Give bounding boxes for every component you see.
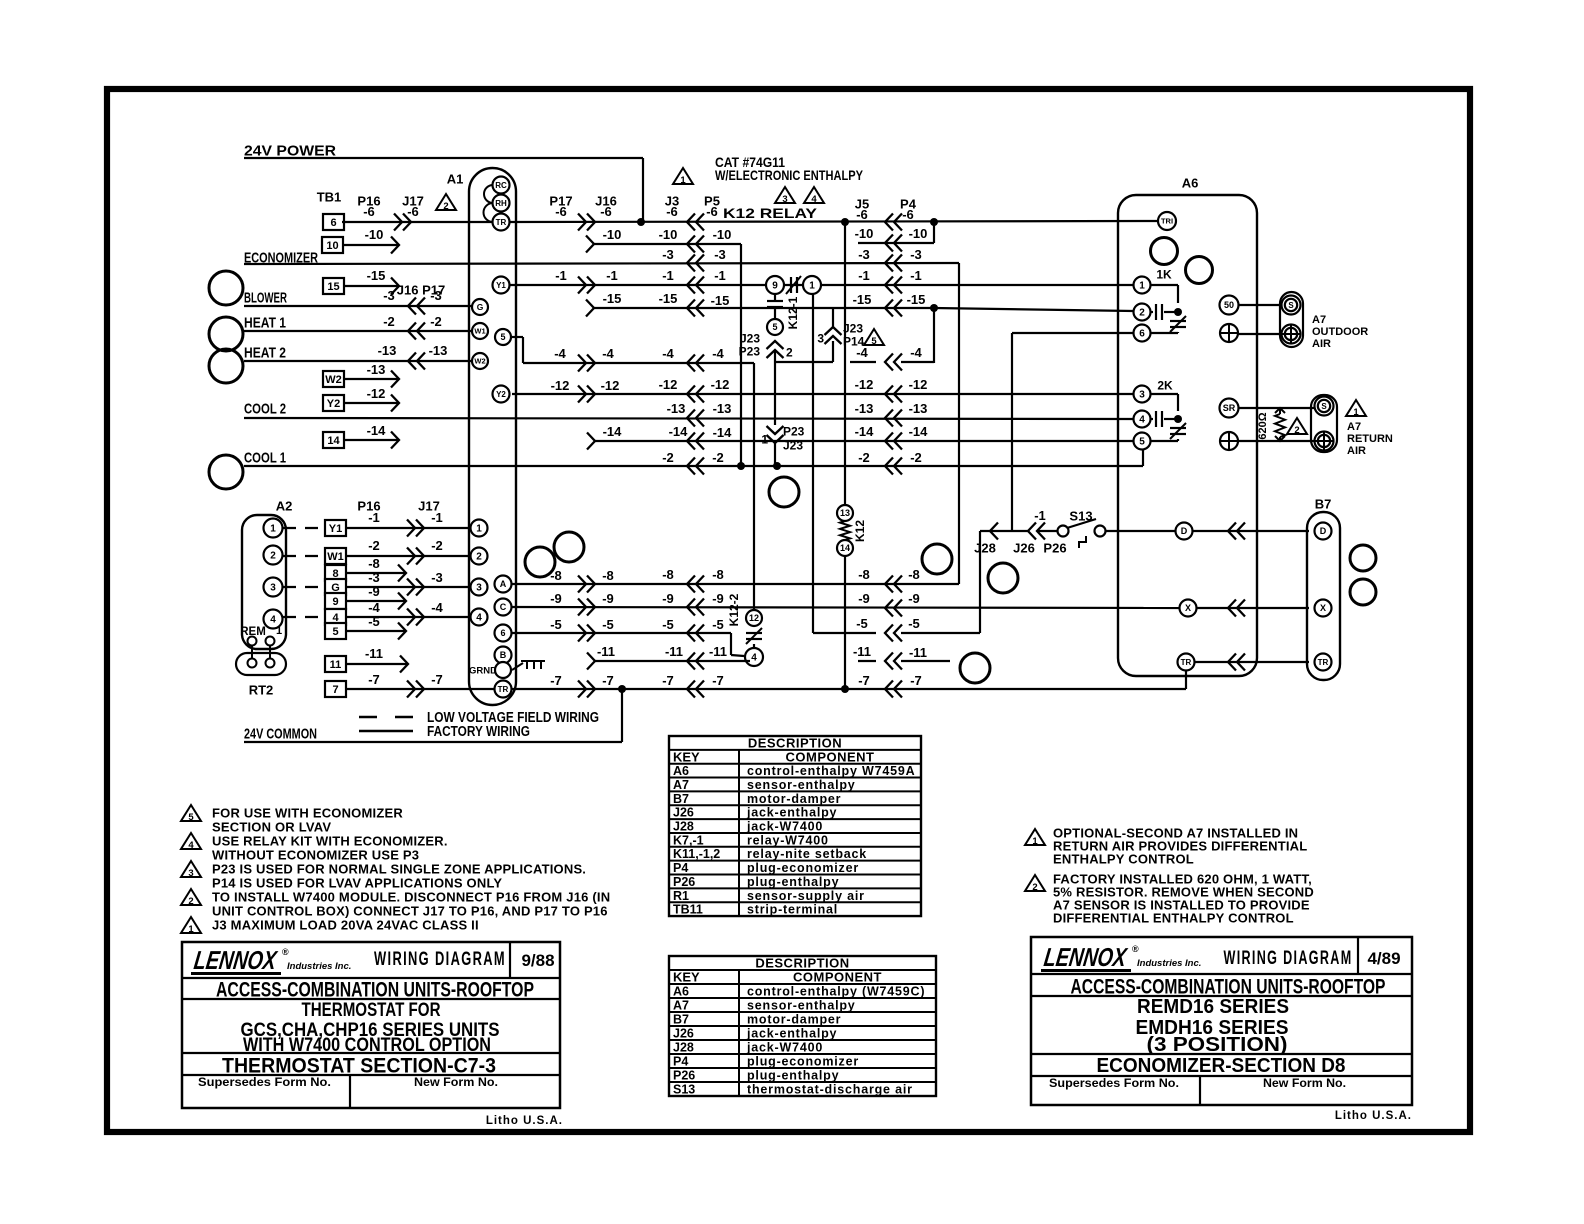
svg-text:-7: -7 (712, 673, 724, 688)
svg-text:REMD16 SERIES: REMD16 SERIES (1137, 996, 1289, 1018)
svg-text:-2: -2 (368, 538, 380, 553)
svg-text:®: ® (1132, 944, 1139, 954)
svg-text:K12-1: K12-1 (786, 296, 800, 329)
svg-text:A2: A2 (276, 499, 293, 514)
svg-text:COMPONENT: COMPONENT (786, 749, 875, 764)
svg-text:plug-economizer: plug-economizer (747, 1055, 859, 1069)
svg-text:6: 6 (500, 628, 505, 638)
svg-text:2: 2 (1294, 425, 1299, 436)
svg-text:-8: -8 (908, 567, 920, 582)
svg-text:-15: -15 (907, 292, 926, 307)
svg-text:TRI: TRI (1161, 217, 1173, 226)
svg-text:RH: RH (495, 199, 507, 208)
svg-text:ECONOMIZER-SECTION D8: ECONOMIZER-SECTION D8 (1097, 1055, 1346, 1077)
svg-text:S: S (1288, 301, 1294, 310)
svg-text:-1: -1 (555, 268, 567, 283)
svg-text:strip-terminal: strip-terminal (747, 903, 838, 917)
svg-text:1: 1 (188, 924, 194, 935)
svg-text:P26: P26 (673, 875, 695, 889)
svg-text:2: 2 (1032, 882, 1037, 893)
svg-text:1: 1 (1139, 281, 1145, 292)
svg-text:-9: -9 (368, 584, 380, 599)
svg-text:10: 10 (326, 240, 338, 252)
svg-text:-11: -11 (665, 644, 683, 659)
svg-text:-1: -1 (606, 268, 618, 283)
svg-text:-1: -1 (1034, 508, 1046, 523)
svg-text:D: D (1320, 526, 1327, 536)
svg-text:-4: -4 (856, 345, 868, 360)
svg-text:A7: A7 (1312, 314, 1326, 326)
svg-text:-1: -1 (858, 268, 870, 283)
svg-text:-12: -12 (367, 386, 386, 401)
svg-text:FOR USE WITH ECONOMIZER: FOR USE WITH ECONOMIZER (212, 806, 403, 821)
svg-text:-8: -8 (602, 568, 614, 583)
svg-text:4: 4 (1139, 415, 1145, 426)
svg-text:A7: A7 (1347, 421, 1361, 433)
svg-text:A6: A6 (1182, 176, 1199, 191)
svg-text:5: 5 (188, 812, 194, 823)
svg-text:5: 5 (500, 332, 505, 342)
svg-text:-1: -1 (714, 268, 726, 283)
svg-text:4: 4 (811, 194, 817, 205)
svg-text:-9: -9 (908, 591, 920, 606)
svg-text:J28: J28 (673, 820, 694, 834)
svg-text:P23: P23 (783, 424, 805, 438)
svg-text:-4: -4 (602, 346, 614, 361)
svg-text:-2: -2 (383, 314, 395, 329)
svg-text:-10: -10 (909, 226, 928, 241)
svg-text:K12 RELAY: K12 RELAY (723, 205, 818, 221)
svg-text:-12: -12 (601, 378, 620, 393)
svg-text:-6: -6 (902, 207, 914, 222)
svg-text:-14: -14 (855, 424, 875, 439)
svg-text:14: 14 (327, 435, 340, 447)
svg-text:-7: -7 (858, 673, 870, 688)
svg-text:-2: -2 (431, 538, 443, 553)
svg-text:1: 1 (761, 432, 768, 446)
svg-text:-12: -12 (909, 377, 928, 392)
svg-text:RT2: RT2 (249, 683, 274, 698)
svg-text:W2: W2 (325, 374, 342, 386)
svg-text:-2: -2 (712, 450, 724, 465)
svg-text:1: 1 (809, 281, 815, 292)
svg-text:4: 4 (751, 653, 757, 664)
svg-text:620Ω: 620Ω (1257, 412, 1269, 439)
svg-text:-3: -3 (430, 288, 442, 303)
svg-text:jack-W7400: jack-W7400 (746, 1041, 823, 1055)
svg-text:J28: J28 (673, 1041, 694, 1055)
svg-text:-4: -4 (712, 346, 724, 361)
svg-text:-5: -5 (602, 617, 614, 632)
svg-text:plug-enthalpy: plug-enthalpy (747, 875, 839, 889)
svg-text:-9: -9 (662, 591, 674, 606)
svg-text:KEY: KEY (673, 970, 700, 985)
svg-text:6: 6 (1139, 329, 1145, 340)
svg-text:3: 3 (476, 583, 482, 594)
svg-text:-5: -5 (662, 617, 674, 632)
svg-text:-6: -6 (706, 204, 718, 219)
svg-text:4: 4 (188, 840, 194, 851)
svg-text:AIR: AIR (1347, 445, 1366, 457)
svg-text:-7: -7 (431, 672, 443, 687)
svg-text:-4: -4 (368, 600, 380, 615)
svg-text:15: 15 (327, 281, 339, 293)
svg-text:J26: J26 (673, 1027, 694, 1041)
svg-text:J23: J23 (740, 331, 760, 345)
svg-text:3: 3 (817, 331, 824, 345)
svg-text:-11: -11 (909, 645, 927, 660)
svg-text:HEAT 2: HEAT 2 (244, 344, 286, 361)
svg-text:-5: -5 (856, 616, 868, 631)
svg-text:-3: -3 (431, 570, 443, 585)
svg-text:WITHOUT ECONOMIZER USE P3: WITHOUT ECONOMIZER USE P3 (212, 848, 419, 863)
svg-text:-5: -5 (712, 617, 724, 632)
svg-text:SECTION OR LVAV: SECTION OR LVAV (212, 820, 331, 835)
svg-text:C: C (500, 602, 507, 612)
svg-text:relay-W7400: relay-W7400 (747, 833, 829, 847)
svg-text:13: 13 (840, 508, 850, 518)
svg-text:K11,-1,2: K11,-1,2 (673, 847, 720, 861)
svg-text:TR: TR (1181, 658, 1192, 667)
svg-text:motor-damper: motor-damper (747, 792, 841, 806)
svg-text:RETURN: RETURN (1347, 433, 1393, 445)
svg-text:Litho U.S.A.: Litho U.S.A. (486, 1115, 563, 1127)
svg-text:-1: -1 (368, 510, 380, 525)
svg-text:A1: A1 (447, 172, 464, 187)
svg-text:-15: -15 (853, 292, 872, 307)
svg-text:J26: J26 (1013, 541, 1035, 556)
svg-text:OUTDOOR: OUTDOOR (1312, 326, 1368, 338)
svg-text:-12: -12 (711, 377, 730, 392)
svg-text:LENNOX: LENNOX (192, 945, 279, 975)
svg-text:A6: A6 (673, 764, 689, 778)
svg-text:1: 1 (270, 524, 276, 535)
svg-text:24V COMMON: 24V COMMON (244, 725, 317, 742)
svg-text:Y2: Y2 (496, 390, 506, 399)
svg-text:2: 2 (786, 345, 793, 359)
svg-text:FACTORY WIRING: FACTORY WIRING (427, 724, 530, 740)
svg-text:A7: A7 (673, 778, 689, 792)
svg-text:-4: -4 (910, 345, 922, 360)
svg-text:TO INSTALL W7400 MODULE. DISCO: TO INSTALL W7400 MODULE. DISCONNECT P16 … (212, 890, 610, 905)
svg-text:Litho U.S.A.: Litho U.S.A. (1335, 1110, 1412, 1122)
svg-text:J26: J26 (673, 806, 694, 820)
svg-text:control-enthalpy (W7459C): control-enthalpy (W7459C) (747, 985, 925, 999)
svg-text:-3: -3 (714, 247, 726, 262)
svg-text:-10: -10 (855, 226, 874, 241)
svg-text:-8: -8 (858, 567, 870, 582)
svg-text:B7: B7 (673, 792, 689, 806)
svg-text:7: 7 (332, 684, 338, 696)
svg-text:B7: B7 (1315, 497, 1332, 512)
svg-text:X: X (1185, 603, 1191, 613)
svg-text:5: 5 (332, 626, 338, 638)
svg-text:W2: W2 (474, 357, 485, 366)
svg-text:GRND: GRND (469, 665, 497, 676)
svg-text:(3 POSITION): (3 POSITION) (1147, 1034, 1288, 1056)
svg-text:plug-enthalpy: plug-enthalpy (747, 1069, 839, 1083)
svg-text:W/ELECTRONIC ENTHALPY: W/ELECTRONIC ENTHALPY (715, 167, 864, 183)
svg-text:Supersedes Form No.: Supersedes Form No. (198, 1077, 331, 1089)
svg-text:-9: -9 (858, 591, 870, 606)
svg-text:5: 5 (871, 336, 877, 347)
svg-text:2: 2 (270, 551, 276, 562)
svg-text:P4: P4 (673, 1055, 688, 1069)
svg-text:WIRING DIAGRAM: WIRING DIAGRAM (1224, 948, 1353, 969)
svg-text:R1: R1 (673, 889, 689, 903)
svg-text:KEY: KEY (673, 749, 700, 764)
svg-text:-2: -2 (430, 314, 442, 329)
svg-text:plug-economizer: plug-economizer (747, 861, 859, 875)
svg-text:-6: -6 (407, 204, 419, 219)
svg-text:1: 1 (1353, 407, 1359, 418)
svg-text:2: 2 (443, 201, 448, 212)
svg-text:-3: -3 (383, 288, 395, 303)
svg-text:WITH W7400 CONTROL OPTION: WITH W7400 CONTROL OPTION (243, 1035, 491, 1056)
svg-text:2: 2 (188, 896, 193, 907)
svg-text:-9: -9 (602, 591, 614, 606)
svg-text:3: 3 (188, 868, 193, 879)
svg-text:New Form No.: New Form No. (414, 1077, 498, 1089)
svg-text:-13: -13 (909, 401, 928, 416)
svg-text:-14: -14 (603, 424, 623, 439)
svg-text:2K: 2K (1157, 378, 1173, 392)
svg-text:-13: -13 (667, 401, 686, 416)
svg-text:W1: W1 (327, 551, 344, 563)
svg-text:ENTHALPY CONTROL: ENTHALPY CONTROL (1053, 852, 1194, 867)
svg-text:-5: -5 (368, 614, 380, 629)
svg-text:-5: -5 (908, 616, 920, 631)
svg-text:1K: 1K (1156, 267, 1172, 281)
svg-text:1: 1 (476, 524, 482, 535)
svg-text:BLOWER: BLOWER (244, 289, 287, 306)
svg-text:3: 3 (270, 583, 276, 594)
svg-text:-2: -2 (858, 450, 870, 465)
svg-text:ACCESS-COMBINATION UNITS-ROOFT: ACCESS-COMBINATION UNITS-ROOFTOP (216, 979, 534, 1002)
svg-text:B7: B7 (673, 1013, 689, 1027)
svg-text:A7: A7 (673, 999, 689, 1013)
svg-text:SR: SR (1223, 403, 1236, 413)
svg-text:S: S (1321, 402, 1327, 411)
svg-text:4: 4 (270, 615, 276, 626)
svg-text:-13: -13 (378, 343, 397, 358)
svg-text:-11: -11 (853, 644, 871, 659)
svg-text:-7: -7 (662, 673, 674, 688)
svg-text:-1: -1 (662, 268, 674, 283)
svg-text:LENNOX: LENNOX (1042, 942, 1129, 972)
svg-text:HEAT 1: HEAT 1 (244, 314, 286, 331)
svg-text:Y2: Y2 (327, 398, 340, 410)
svg-text:sensor-enthalpy: sensor-enthalpy (747, 999, 856, 1013)
svg-text:-10: -10 (713, 227, 732, 242)
svg-text:6: 6 (330, 217, 336, 229)
svg-text:-14: -14 (909, 424, 929, 439)
svg-text:-13: -13 (855, 401, 874, 416)
svg-text:P4: P4 (673, 861, 688, 875)
svg-text:3: 3 (782, 194, 787, 205)
svg-text:-15: -15 (603, 291, 622, 306)
svg-text:P26: P26 (673, 1069, 695, 1083)
svg-text:11: 11 (330, 659, 342, 671)
svg-text:DESCRIPTION: DESCRIPTION (755, 956, 849, 971)
svg-text:jack-enthalpy: jack-enthalpy (746, 1027, 837, 1041)
svg-text:®: ® (282, 947, 289, 957)
svg-text:A: A (500, 579, 507, 589)
svg-text:-10: -10 (659, 227, 678, 242)
svg-text:S13: S13 (673, 1083, 695, 1097)
svg-text:-15: -15 (711, 293, 730, 308)
svg-text:Supersedes Form No.: Supersedes Form No. (1049, 1078, 1179, 1090)
svg-text:4: 4 (476, 613, 482, 624)
svg-text:G: G (477, 302, 484, 312)
svg-text:control-enthalpy W7459A: control-enthalpy W7459A (747, 764, 915, 778)
svg-text:-3: -3 (858, 247, 870, 262)
svg-text:-6: -6 (555, 204, 567, 219)
svg-text:-13: -13 (429, 343, 448, 358)
svg-text:9: 9 (772, 281, 778, 292)
svg-text:-6: -6 (856, 207, 868, 222)
svg-text:-7: -7 (910, 673, 922, 688)
svg-text:thermostat-discharge air: thermostat-discharge air (747, 1083, 913, 1097)
svg-text:THERMOSTAT FOR: THERMOSTAT FOR (302, 1000, 441, 1021)
svg-text:COOL 1: COOL 1 (244, 449, 286, 466)
svg-text:S13: S13 (1069, 509, 1092, 524)
svg-text:K12-2: K12-2 (727, 593, 741, 626)
svg-text:-8: -8 (662, 567, 674, 582)
svg-text:New Form No.: New Form No. (1263, 1078, 1346, 1090)
svg-text:K7,-1: K7,-1 (673, 833, 704, 847)
svg-text:USE RELAY KIT WITH ECONOMIZER.: USE RELAY KIT WITH ECONOMIZER. (212, 834, 448, 849)
svg-text:12: 12 (749, 613, 759, 623)
svg-text:-3: -3 (368, 570, 380, 585)
svg-text:9/88: 9/88 (521, 951, 554, 970)
svg-text:-14: -14 (669, 424, 689, 439)
svg-text:A6: A6 (673, 985, 689, 999)
svg-text:-7: -7 (550, 673, 562, 688)
svg-text:14: 14 (840, 543, 850, 553)
svg-text:-3: -3 (910, 247, 922, 262)
svg-text:Industries Inc.: Industries Inc. (1137, 958, 1201, 969)
svg-text:motor-damper: motor-damper (747, 1013, 841, 1027)
svg-text:P26: P26 (1043, 541, 1066, 556)
svg-text:P23: P23 (739, 344, 761, 358)
svg-text:-9: -9 (550, 591, 562, 606)
svg-text:4/89: 4/89 (1367, 949, 1400, 968)
svg-text:-2: -2 (662, 450, 674, 465)
svg-text:-10: -10 (603, 227, 622, 242)
svg-text:jack-enthalpy: jack-enthalpy (746, 806, 837, 820)
svg-text:UNIT CONTROL BOX) CONNECT J17: UNIT CONTROL BOX) CONNECT J17 TO P16, AN… (212, 904, 608, 919)
svg-text:5: 5 (772, 322, 777, 332)
svg-text:TR: TR (496, 218, 507, 227)
svg-text:-14: -14 (367, 423, 387, 438)
svg-text:-8: -8 (368, 556, 380, 571)
svg-text:1: 1 (276, 625, 282, 637)
svg-text:9: 9 (332, 596, 338, 608)
svg-text:B: B (500, 650, 507, 660)
svg-text:1: 1 (1032, 836, 1038, 847)
svg-text:D: D (1181, 526, 1188, 536)
svg-text:3: 3 (1139, 390, 1145, 401)
svg-text:sensor-supply air: sensor-supply air (747, 889, 865, 903)
svg-text:Y1: Y1 (329, 523, 342, 535)
svg-text:J28: J28 (974, 541, 996, 556)
svg-text:-10: -10 (365, 227, 384, 242)
svg-text:Industries Inc.: Industries Inc. (287, 961, 351, 972)
svg-text:-6: -6 (666, 204, 678, 219)
svg-text:-11: -11 (365, 646, 383, 661)
svg-text:Y1: Y1 (496, 281, 506, 290)
svg-text:-14: -14 (713, 425, 733, 440)
svg-text:-5: -5 (550, 617, 562, 632)
svg-text:P23 IS USED FOR NORMAL SINGLE: P23 IS USED FOR NORMAL SINGLE ZONE APPLI… (212, 862, 586, 877)
svg-text:K12: K12 (853, 520, 867, 542)
svg-text:ACCESS-COMBINATION UNITS-ROOFT: ACCESS-COMBINATION UNITS-ROOFTOP (1071, 976, 1386, 999)
svg-text:THERMOSTAT SECTION-C7-3: THERMOSTAT SECTION-C7-3 (222, 1055, 496, 1078)
svg-text:TB1: TB1 (317, 190, 342, 205)
svg-text:COOL 2: COOL 2 (244, 400, 286, 417)
svg-text:-7: -7 (368, 672, 380, 687)
svg-text:-15: -15 (659, 291, 678, 306)
svg-text:-7: -7 (602, 673, 614, 688)
svg-text:DIFFERENTIAL ENTHALPY CONTROL: DIFFERENTIAL ENTHALPY CONTROL (1053, 911, 1294, 926)
svg-text:-8: -8 (712, 567, 724, 582)
svg-text:-13: -13 (713, 401, 732, 416)
svg-text:-1: -1 (910, 268, 922, 283)
svg-text:WIRING DIAGRAM: WIRING DIAGRAM (374, 949, 506, 970)
svg-text:2: 2 (1139, 308, 1145, 319)
svg-text:J23: J23 (843, 321, 863, 335)
svg-text:AIR: AIR (1312, 338, 1331, 350)
svg-text:DESCRIPTION: DESCRIPTION (748, 736, 842, 751)
svg-text:sensor-enthalpy: sensor-enthalpy (747, 778, 856, 792)
svg-text:jack-W7400: jack-W7400 (746, 820, 823, 834)
svg-text:J3 MAXIMUM LOAD 20VA 24VAC CLA: J3 MAXIMUM LOAD 20VA 24VAC CLASS II (212, 918, 479, 933)
svg-text:-12: -12 (551, 378, 570, 393)
svg-text:-4: -4 (554, 346, 566, 361)
svg-text:-13: -13 (367, 362, 386, 377)
svg-text:-4: -4 (431, 600, 443, 615)
svg-text:P14 IS USED FOR LVAV APPLICATI: P14 IS USED FOR LVAV APPLICATIONS ONLY (212, 876, 502, 891)
svg-text:5: 5 (1139, 437, 1145, 448)
svg-text:1: 1 (680, 175, 686, 186)
svg-text:TB11: TB11 (673, 903, 703, 917)
svg-text:TR: TR (1318, 658, 1329, 667)
svg-text:TR: TR (498, 685, 509, 694)
svg-text:W1: W1 (474, 327, 485, 336)
svg-text:-9: -9 (712, 591, 724, 606)
svg-text:-4: -4 (662, 346, 674, 361)
svg-text:RC: RC (495, 181, 507, 190)
svg-text:-1: -1 (431, 510, 443, 525)
svg-text:-6: -6 (600, 204, 612, 219)
svg-text:-15: -15 (367, 268, 386, 283)
svg-text:-11: -11 (597, 644, 615, 659)
svg-text:relay-nite setback: relay-nite setback (747, 847, 867, 861)
svg-text:COMPONENT: COMPONENT (793, 970, 882, 985)
svg-text:-11: -11 (709, 644, 727, 659)
svg-text:-12: -12 (855, 377, 874, 392)
svg-text:-2: -2 (910, 450, 922, 465)
svg-text:-3: -3 (662, 247, 674, 262)
svg-text:24V POWER: 24V POWER (244, 142, 336, 159)
svg-text:-12: -12 (659, 377, 678, 392)
svg-text:50: 50 (1224, 300, 1234, 310)
svg-text:X: X (1320, 603, 1326, 613)
svg-text:-6: -6 (363, 204, 375, 219)
svg-text:2: 2 (476, 552, 482, 563)
